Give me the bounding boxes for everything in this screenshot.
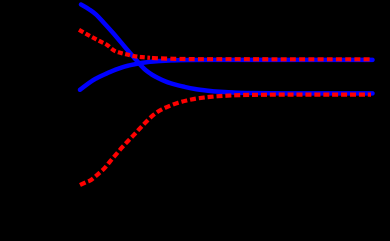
adiabatic lower curve (red dashed) [80, 95, 371, 185]
adiabatic upper curve, sloped section (red dashed) [79, 30, 150, 58]
diabatic curve 1 (blue solid, upper-left to lower-right) [81, 5, 373, 94]
diabatic curve 2 (blue solid, lower-left to upper-right) [80, 60, 373, 90]
adiabatic upper curve, flat section (red dashed) [150, 58, 371, 60]
